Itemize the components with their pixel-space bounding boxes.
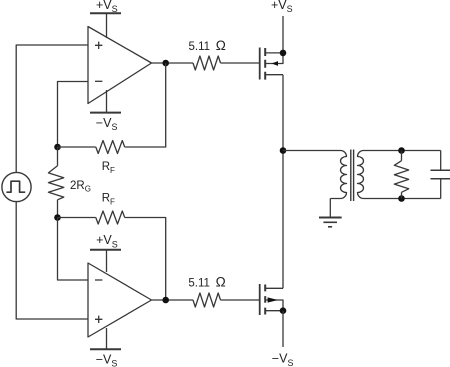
- op-amp U2 triangle: [88, 263, 152, 337]
- transformer T1 core lines: [351, 150, 354, 202]
- transformer T1 primary winding: [330, 151, 346, 199]
- transformer T1 secondary winding: [357, 151, 363, 199]
- svg-text:−VS: −VS: [96, 116, 118, 132]
- transistor Q1 body lead: [266, 53, 283, 64]
- transistor Q1 channel bars: [264, 48, 266, 80]
- wire: left rail from opamp U1 +input to source top: [16, 45, 88, 172]
- resistor R1 5.11 ohm zigzag: [193, 56, 221, 70]
- node: load bottom junction dot: [398, 195, 405, 202]
- wire: resistor R1 to Q1 gate: [221, 62, 260, 64]
- wire: feedback RF1 row from node A: [58, 146, 96, 148]
- svg-text:−VS: −VS: [96, 352, 118, 367]
- op-amp U2 minus input marker: [95, 279, 102, 281]
- node: Q1 drain junction dot: [280, 50, 287, 57]
- capacitor C1 top lead: [440, 151, 442, 171]
- wire: secondary bottom to load: [363, 198, 441, 200]
- transistor Q1 gate bar: [259, 48, 261, 80]
- op-amp U2 +VS supply lead: [106, 250, 108, 272]
- svg-text:5.11 Ω: 5.11 Ω: [189, 38, 226, 53]
- wire: output column to transformer T1 primary: [283, 150, 341, 152]
- resistor R2 5.11 ohm zigzag: [193, 293, 221, 307]
- wire: feedback RF2 row from node B: [58, 217, 96, 219]
- svg-text:RF: RF: [102, 161, 115, 175]
- transistor Q2 drain lead: [266, 287, 283, 289]
- transistor Q1 body arrow: [272, 61, 279, 66]
- resistor 2RG zigzag: [48, 166, 63, 200]
- wire: secondary top to load: [363, 150, 441, 152]
- svg-text:5.11 Ω: 5.11 Ω: [188, 274, 225, 289]
- wire: left rail from source bottom to opamp U2 +input: [16, 202, 88, 319]
- op-amp U1 minus input marker: [95, 80, 102, 82]
- capacitor C1 bottom lead: [440, 179, 442, 199]
- op-amp U1 plus input marker: [95, 42, 102, 49]
- op-amp U1 -VS supply lead: [106, 90, 108, 113]
- svg-text:+VS: +VS: [96, 233, 118, 249]
- transistor Q2 body arrow: [268, 297, 278, 302]
- pulse source V1 circle: [2, 172, 31, 201]
- resistor RL leads: [401, 151, 403, 199]
- capacitor C1 plates: [431, 170, 450, 179]
- op-amp U2 -VS supply bar: [90, 348, 121, 350]
- wire: U2 output to resistor R2: [152, 299, 194, 301]
- op-amp U1 +VS supply bar: [90, 12, 121, 14]
- wire: mid rail from node B down to opamp U2 -input: [58, 218, 89, 281]
- transistor Q2 body lead: [266, 300, 283, 311]
- resistor RF2 zigzag: [96, 211, 125, 224]
- transistor Q2 source lead: [266, 310, 283, 312]
- node B junction dot: [54, 214, 61, 221]
- transistor Q1 source lead: [266, 74, 283, 76]
- svg-text:2RG: 2RG: [70, 180, 91, 194]
- resistor 2RG leads: [57, 147, 59, 218]
- op-amp U1 -VS supply bar: [90, 112, 121, 114]
- op-amp U2 +VS supply bar: [90, 249, 121, 251]
- wire: Q1 source down to Q2 drain (output column): [282, 75, 284, 289]
- wire: resistor R2 to Q2 gate: [221, 299, 260, 301]
- svg-text:+VS: +VS: [96, 0, 118, 14]
- transistor Q1 drain lead: [266, 52, 283, 54]
- transistor Q2 gate bar: [259, 284, 261, 315]
- wire: resistor RF2 to U2 output: [125, 218, 166, 301]
- pulse source V1 waveform symbol: [6, 181, 25, 192]
- wire: resistor RF1 to U1 output: [125, 63, 166, 147]
- node A junction dot: [54, 144, 61, 151]
- node: U2 output junction dot: [162, 297, 169, 304]
- ground symbol: [319, 218, 342, 227]
- node: U1 output junction dot: [162, 60, 169, 67]
- wire: +VS to Q1 drain: [282, 16, 284, 53]
- resistor RL zigzag: [394, 161, 408, 193]
- svg-text:RF: RF: [102, 193, 115, 207]
- node: load top junction dot: [398, 147, 405, 154]
- wire: U1 output to resistor R1: [152, 62, 194, 64]
- transistor Q2 channel bars: [264, 285, 266, 315]
- op-amp U1 triangle: [88, 27, 152, 104]
- svg-text:+VS: +VS: [271, 0, 293, 14]
- wire: Q2 source down to -VS: [282, 311, 284, 347]
- op-amp U2 plus input marker: [95, 316, 102, 323]
- wire: mid rail from opamp U1 -input down to node A: [58, 82, 89, 148]
- node: Q2 source junction dot: [280, 307, 287, 314]
- resistor RF1 zigzag: [96, 141, 125, 154]
- op-amp U1 +VS supply lead: [106, 13, 108, 38]
- node: transformer tap junction dot: [280, 147, 287, 154]
- wire: primary bottom to ground: [329, 199, 331, 218]
- svg-text:−VS: −VS: [272, 351, 294, 367]
- op-amp U2 -VS supply lead: [106, 328, 108, 349]
